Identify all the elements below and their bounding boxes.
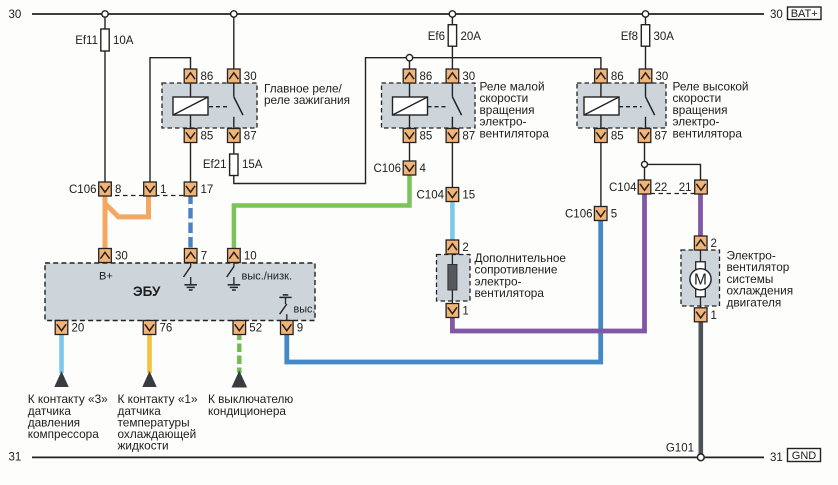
svg-text:30: 30 [770,9,783,21]
purple wire C104 pin 21 to motor pin 2 [698,194,703,237]
motor M symbol U-motor [690,262,711,297]
svg-text:10A: 10A [113,35,134,47]
ECU switch to ground (pin 7) [184,262,191,277]
wire relay K3 pin 87 to C104 pins 22 and 21 [645,142,701,180]
relay K3 pin 87 connector [638,129,651,143]
connector row C106 dashed link (pins 8,1,17) [99,195,197,197]
svg-text:21: 21 [679,182,692,194]
relay K3 switch contact [619,83,655,129]
svg-text:2: 2 [462,242,468,254]
fuse Ef6 20A [448,25,456,47]
relay K2 body (Реле малой скорости) [382,83,476,128]
motor pin 1 connector [694,308,707,322]
yellow wire ECU pin 76 to sensor [147,334,152,373]
wire relay K1 pin 30 to bus [233,14,235,69]
resistor pin 1 connector [446,304,459,318]
relay K1 pin 86 connector [184,69,197,83]
wire bus to fuse Ef11 to C106 pin 8 [104,14,106,182]
resistor pin 2 connector [446,240,459,254]
relay K1 name label [264,82,350,108]
ECU switch to ground (pin 10) [227,262,234,277]
svg-text:двигателя: двигателя [727,295,782,309]
relay K2 switch contact [428,83,462,129]
svg-text:30: 30 [244,71,257,83]
blue-white striped wire C106 pin 17 to ECU pin 7 [188,196,192,249]
ECU switch выс. (pin 9) [279,295,291,321]
relay K3 pin 30 connector [639,69,652,83]
motor pin 2 connector [694,236,707,250]
relay K3 pin 86 connector [595,69,608,83]
connector C106 pin 17 [184,182,197,196]
svg-text:30: 30 [462,71,475,83]
svg-text:10: 10 [244,251,257,263]
svg-text:GND: GND [792,450,817,462]
ground symbol (pin 10) [228,277,241,290]
svg-text:Ef21: Ef21 [203,159,227,171]
svg-text:86: 86 [420,71,433,83]
relay K2 name label [480,80,550,141]
svg-text:реле зажигания: реле зажигания [264,93,350,107]
wire relay K1 pin 85 to C106 pin 17 [190,142,192,182]
svg-text:C104: C104 [609,182,637,194]
connector C104 pin 15 [446,188,459,202]
connector C106 pin 8 [99,182,112,196]
svg-text:30: 30 [9,9,22,21]
resistor element [448,265,457,291]
svg-text:52: 52 [249,323,262,335]
svg-text:76: 76 [160,323,173,335]
svg-text:4: 4 [420,163,427,175]
label to coolant temperature sensor [118,392,198,452]
wire bus to fuse Ef6 to relay K2 pin 30 [451,14,453,69]
off-page arrow to AC switch [232,371,248,388]
relay K3 pin 85 connector [595,129,608,143]
relay K3 body (Реле высокой скорости) [577,83,666,128]
svg-text:1: 1 [711,310,717,322]
svg-text:BAT+: BAT+ [791,8,818,20]
relay K2 pin 85 connector [403,129,416,143]
svg-text:Ef11: Ef11 [75,35,98,47]
svg-text:15: 15 [462,190,475,202]
cyan wire C104 pin 15 to resistor pin 2 [450,201,455,241]
node bus junction at Ef11 [102,11,108,17]
fuse Ef8 30A [641,25,649,47]
svg-text:вентилятора: вентилятора [673,126,743,140]
svg-text:1: 1 [160,184,166,196]
blue wire C106 pin 5 to ECU pin 9 [287,220,601,362]
wire relay K1 pin 86 to C106 pin 1 [150,58,191,182]
svg-text:G101: G101 [666,443,694,455]
fuse Ef11 10A [101,29,109,51]
relay K1 coil [173,83,208,129]
relay K1 switch contact [209,83,243,129]
node junction relay K3 pin 87 branch [642,161,648,167]
wire relay K1 pin 87 to fuse Ef21 [233,142,235,157]
relay K2 pin 86 connector [403,69,416,83]
resistor name label [475,251,567,300]
svg-text:85: 85 [201,131,214,143]
green-white striped wire ECU pin 52 to AC switch [237,334,241,373]
svg-text:30: 30 [115,251,128,263]
svg-text:C106: C106 [69,184,97,196]
wire relay K2 pin 85 to C106 pin 4 [409,142,411,161]
svg-text:86: 86 [201,71,214,83]
connector C106 pin 1 [144,182,157,196]
cyan wire ECU pin 20 to sensor [59,334,64,373]
node bus junction at Ef6 [449,11,455,17]
fuse Ef21 15A [230,154,238,176]
svg-text:Ef8: Ef8 [621,31,638,43]
node G101 ground junction [697,454,704,461]
ECU pin 30 connector [99,249,112,263]
wire bus to fuse Ef8 to relay K3 pin 30 [645,14,647,69]
svg-text:31: 31 [770,452,783,464]
svg-text:20A: 20A [461,31,482,43]
off-page arrow to compressor pressure sensor [54,371,68,387]
GND terminal box [788,449,821,463]
svg-text:7: 7 [201,251,207,263]
wire relay K2 pin 87 to C104 pin 15 [451,142,453,188]
fan motor block body [681,248,720,310]
svg-text:компрессора: компрессора [28,427,100,441]
svg-text:85: 85 [420,131,433,143]
purple wire C104 pin 22 to resistor pin 1 [452,194,644,332]
svg-text:ЭБУ: ЭБУ [133,284,161,299]
relay K2 pin 30 connector [446,69,459,83]
svg-text:86: 86 [611,71,624,83]
svg-text:87: 87 [244,131,257,143]
svg-text:15A: 15A [242,159,263,171]
svg-text:8: 8 [115,184,121,196]
svg-text:20: 20 [72,323,85,335]
svg-text:C104: C104 [417,190,445,202]
label to AC switch [208,392,293,418]
svg-text:жидкости: жидкости [118,439,169,453]
relay K1 pin 85 connector [184,129,197,143]
relay K3 name label [673,80,749,141]
svg-text:2: 2 [711,238,717,250]
svg-text:M: M [694,272,707,289]
svg-text:кондиционера: кондиционера [208,404,286,418]
svg-text:B+: B+ [99,271,113,283]
svg-text:87: 87 [655,131,668,143]
node bus junction at Ef8 [642,11,648,17]
svg-text:C106: C106 [565,209,593,221]
ECU block ЭБУ [45,263,315,321]
svg-text:17: 17 [201,184,214,196]
svg-text:85: 85 [611,131,624,143]
top bus 30 [32,13,764,15]
svg-text:30: 30 [656,71,669,83]
ECU pin 52 connector [233,321,246,335]
relay K2 coil [393,83,428,129]
connector row C104 dashed link (pins 22,21) [651,193,695,195]
svg-text:выс./низк.: выс./низк. [242,271,293,283]
orange wire C106 pin 8 to ECU B+ and C106 pin 1 [104,196,148,249]
svg-text:вентилятора: вентилятора [480,126,550,140]
connector C106 pin 5 [594,207,607,221]
ground symbol (pin 7) [184,277,197,290]
svg-text:87: 87 [462,131,475,143]
connector C104 pin 22 [638,180,651,194]
wire Ef21 to relay coil feed node [234,58,601,184]
svg-text:31: 31 [9,452,22,464]
svg-text:выс.: выс. [294,303,316,315]
ECU pin 10 connector [228,249,241,263]
connector C104 pin 21 [695,180,708,194]
green wire ECU pin 10 to C106 pin 4 [234,175,410,249]
label to compressor pressure sensor [28,392,108,441]
wire relay K3 pin 85 to C106 pin 5 [600,142,602,207]
relay K2 pin 87 connector [446,129,459,143]
resistor block body (Дополнительное сопротивление) [437,254,471,304]
svg-text:30A: 30A [654,31,675,43]
svg-text:22: 22 [655,182,668,194]
connector C106 pin 4 [403,161,416,175]
relay K1 body (Главное реле) [162,83,257,128]
relay K1 pin 87 connector [228,129,241,143]
BAT+ terminal box [788,7,822,20]
relay K1 pin 30 connector [228,69,241,83]
svg-text:Ef6: Ef6 [428,31,445,43]
ECU pin 76 connector [143,321,156,335]
ECU pin 9 connector [281,321,294,335]
relay K3 coil [584,83,619,129]
motor name label [727,249,794,310]
svg-text:9: 9 [297,323,303,335]
wire motor pin 1 to ground bus [698,322,703,457]
node bus junction at relay K1 pin 30 [231,11,237,17]
off-page arrow to coolant temperature sensor [142,371,156,387]
bottom bus 31 [32,456,764,458]
svg-text:5: 5 [611,209,617,221]
svg-text:C106: C106 [374,163,402,175]
svg-text:вентилятора: вентилятора [475,286,545,300]
node coil feed junction [406,55,412,61]
ECU pin 20 connector [55,321,68,335]
ECU pin 7 connector [184,249,197,263]
svg-text:1: 1 [462,306,468,318]
